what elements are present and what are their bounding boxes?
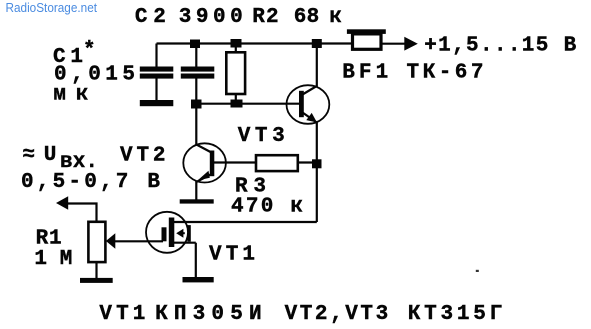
node junction VT3 emitter / R3: [312, 159, 322, 168]
svg-text:ТК-67: ТК-67: [407, 61, 484, 84]
wire input arrow shaft: [66, 204, 97, 223]
wire VT2 collector: [196, 104, 210, 152]
stray dot artifact: [476, 270, 479, 272]
svg-text:68: 68: [294, 6, 319, 29]
svg-text:+1,5...15 В: +1,5...15 В: [424, 35, 576, 58]
ground (R1): [80, 278, 113, 283]
VT1 substrate arrow: [183, 232, 185, 234]
svg-text:470 к: 470 к: [231, 195, 303, 218]
node junction VT3 collector / rail: [312, 39, 322, 48]
VT1 source bar: [187, 225, 190, 241]
ground (VT2 emitter): [180, 199, 214, 203]
svg-text:BF1: BF1: [342, 61, 388, 84]
wire VT3 emitter diagonal: [303, 113, 317, 123]
svg-text:R1: R1: [36, 227, 62, 250]
BF1 phone ТК-67: [347, 29, 386, 49]
wire VT2 emitter diagonal: [196, 175, 210, 183]
svg-text:VT2,VT3: VT2,VT3: [285, 303, 389, 326]
wire C1 top lead: [155, 44, 157, 68]
resistor R2: [226, 52, 245, 94]
wire R3 right lead: [298, 161, 317, 163]
svg-text:VT1: VT1: [209, 244, 255, 267]
node junction R2 bottom: [231, 100, 243, 108]
wire VT3 emitter down: [316, 123, 318, 165]
resistor R1 (potentiometer): [88, 222, 105, 262]
ground (VT1 source): [183, 277, 214, 282]
svg-text:к: к: [329, 6, 342, 29]
svg-text:*: *: [83, 40, 96, 63]
input arrow: [56, 196, 68, 210]
capacitor C1: [140, 67, 174, 79]
svg-text:R2: R2: [252, 6, 278, 29]
VT1 gate bar: [162, 227, 167, 241]
wire rail to output arrow: [381, 43, 406, 45]
wire VT1 drain horizontal: [173, 221, 317, 223]
transistor VT2: [183, 143, 226, 182]
wire R1 bottom lead: [95, 262, 97, 278]
svg-text:VT3: VT3: [238, 125, 285, 148]
wire VT1 source to ground: [172, 243, 196, 278]
svg-text:1 М: 1 М: [34, 248, 72, 271]
node junction C2 bottom: [191, 100, 202, 109]
R1 wiper arrow: [106, 233, 115, 249]
ground (under C1): [140, 100, 174, 106]
resistor R3: [256, 155, 298, 171]
wire C1 bottom lead: [155, 79, 157, 101]
svg-text:0,015: 0,015: [54, 63, 135, 86]
wire VT2 base to R3: [214, 161, 257, 163]
wire VT3 collector: [303, 44, 317, 95]
svg-text:VT1: VT1: [99, 303, 145, 326]
wire C2 bottom lead: [195, 79, 197, 104]
capacitor C2: [181, 67, 215, 79]
svg-text:RadioStorage.net: RadioStorage.net: [6, 0, 98, 15]
node junction R2 top: [231, 39, 242, 48]
svg-text:0,5-0,7 В: 0,5-0,7 В: [21, 171, 160, 194]
wire lower rail (base of VT3): [196, 103, 301, 105]
node junction C2 top: [190, 40, 200, 49]
output arrow: [404, 37, 418, 51]
svg-text:VT2: VT2: [120, 144, 166, 167]
wire top rail: [157, 42, 353, 44]
wire VT2 emitter to ground: [195, 181, 197, 200]
VT1 channel bar: [169, 218, 175, 248]
wire R2 bottom lead: [235, 94, 237, 104]
transistor VT3: [287, 85, 330, 124]
transistor VT1 (MOSFET): [146, 212, 191, 253]
wire right drop to drain: [316, 164, 318, 222]
wire R1 wiper to VT1 gate: [115, 240, 164, 242]
wire R2 top lead: [235, 44, 237, 53]
wire C2 top lead: [195, 44, 197, 68]
